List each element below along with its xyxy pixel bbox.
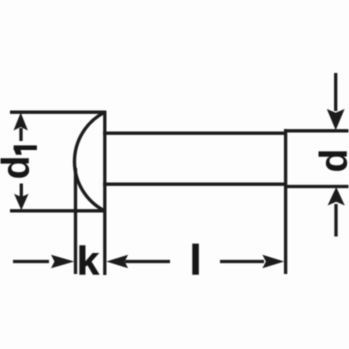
wire shank end / extension line l right xyxy=(284,129,287,274)
arrowhead d up xyxy=(328,187,345,206)
wire d dimension line upper xyxy=(334,73,337,111)
wire k leader left xyxy=(13,260,49,263)
arrowhead k right-outside / l left pointing left xyxy=(106,255,128,269)
arrowhead d1 down xyxy=(14,194,28,211)
wire shank bottom xyxy=(103,183,287,186)
svg-text:l: l xyxy=(190,237,202,284)
rivet head dome arc xyxy=(74,112,104,211)
wire bottom extension line d1 xyxy=(10,209,106,212)
wire shank top xyxy=(103,132,287,135)
wire l dimension line left xyxy=(125,260,170,263)
rivet head face xyxy=(103,111,106,275)
arrowhead k left-outside pointing right xyxy=(51,255,74,269)
wire right bottom extension line d xyxy=(285,185,349,188)
wire k left extension line xyxy=(74,168,77,274)
arrowhead d1 up xyxy=(14,113,28,131)
wire d1 dimension line lower xyxy=(20,184,23,198)
wire d dimension line lower xyxy=(334,204,337,237)
svg-text:d: d xyxy=(313,149,349,173)
wire right top extension line d xyxy=(285,129,349,132)
wire l dimension line right xyxy=(220,260,264,263)
arrowhead d down xyxy=(327,109,345,130)
svg-text:k: k xyxy=(77,240,100,284)
wire d1 dimension line upper xyxy=(19,128,22,141)
wire top extension line d1 xyxy=(10,111,106,114)
svg-text:d: d xyxy=(0,156,38,180)
label d1 subscript 1 xyxy=(14,145,37,154)
arrowhead l right pointing right xyxy=(262,255,284,269)
